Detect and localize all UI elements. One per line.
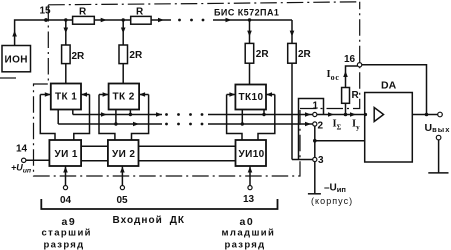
svg-text:ТК10: ТК10 [239, 92, 264, 103]
svg-text:04: 04 [60, 195, 72, 206]
svg-text:2R: 2R [129, 50, 143, 61]
svg-text:Uвых: Uвых [425, 122, 451, 134]
svg-text:IΣ: IΣ [333, 119, 342, 132]
svg-text:R: R [136, 7, 144, 18]
svg-text:15: 15 [40, 6, 52, 17]
svg-text:R: R [352, 90, 360, 101]
svg-text:Iу: Iу [352, 119, 360, 132]
svg-text:Входной ДК: Входной ДК [113, 215, 186, 226]
svg-text:2: 2 [318, 121, 324, 132]
svg-text:(корпус): (корпус) [311, 196, 353, 206]
svg-text:УИ10: УИ10 [239, 149, 265, 160]
svg-text:старший: старший [42, 227, 92, 238]
svg-text:1: 1 [313, 101, 319, 112]
svg-text:разряд: разряд [225, 240, 266, 250]
svg-text:УИ 1: УИ 1 [55, 149, 78, 160]
svg-text:разряд: разряд [44, 240, 85, 250]
svg-text:14: 14 [16, 144, 28, 155]
svg-text:2R: 2R [256, 49, 270, 60]
svg-text:а9: а9 [62, 216, 77, 228]
svg-text:БИС К572ПА1: БИС К572ПА1 [214, 8, 279, 18]
svg-text:2R: 2R [72, 51, 86, 62]
svg-text:R: R [79, 7, 87, 18]
svg-text:05: 05 [117, 195, 129, 206]
svg-text:–Uип: –Uип [324, 182, 346, 194]
svg-text:16: 16 [344, 54, 356, 65]
svg-text:Iос: Iос [327, 69, 340, 82]
svg-text:ТК 2: ТК 2 [113, 92, 135, 103]
svg-text:2R: 2R [298, 49, 312, 60]
svg-text:3: 3 [318, 155, 324, 166]
svg-text:а0: а0 [240, 216, 255, 228]
svg-text:ТК 1: ТК 1 [55, 92, 77, 103]
svg-text:DA: DA [381, 80, 397, 92]
svg-text:+Uип: +Uип [11, 162, 32, 174]
svg-text:младший: младший [222, 227, 276, 238]
svg-text:13: 13 [243, 194, 255, 205]
svg-text:УИ 2: УИ 2 [112, 149, 135, 160]
svg-text:ИОН: ИОН [5, 55, 28, 66]
